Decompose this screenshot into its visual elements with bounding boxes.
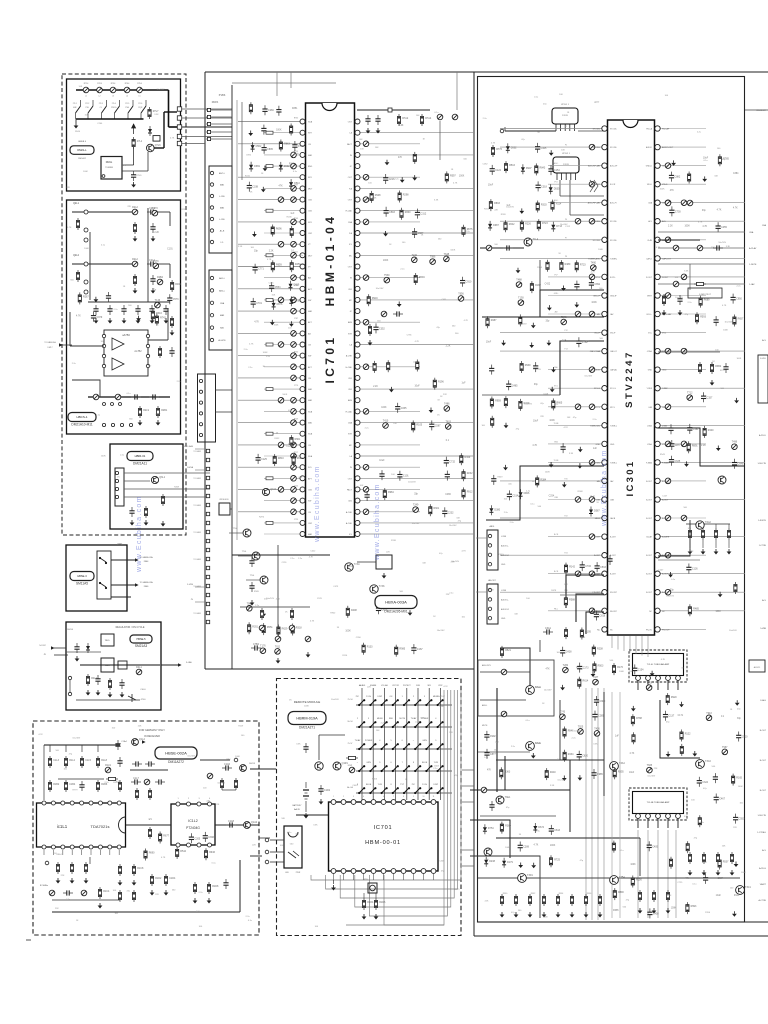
- IC301 pin 25: [602, 571, 607, 576]
- trimmer resistor RV: [275, 636, 281, 642]
- svg-text:4.7K: 4.7K: [532, 445, 537, 447]
- svg-text:www.Ecubiha.com: www.Ecubiha.com: [314, 465, 321, 543]
- svg-text:C979: C979: [97, 316, 103, 319]
- diode D238: [484, 857, 488, 867]
- IC701 pin 63: [355, 264, 360, 269]
- pin: [488, 598, 491, 601]
- resistor R: [491, 416, 494, 428]
- trimmer resistor RV: [291, 353, 297, 359]
- svg-text:R1D8: R1D8: [212, 885, 219, 888]
- ground: [716, 446, 721, 452]
- svg-text:DM6: DM6: [144, 586, 149, 588]
- svg-text:HBCS-1: HBCS-1: [76, 415, 87, 419]
- wire: [333, 880, 335, 884]
- junction: [363, 743, 365, 745]
- svg-text:R232: R232: [467, 472, 473, 475]
- svg-text:TUNE-C: TUNE-C: [610, 462, 618, 464]
- svg-text:5: 5: [373, 796, 374, 798]
- ground: [662, 310, 667, 316]
- transistor T7A4: [345, 563, 353, 571]
- junction: [392, 726, 394, 728]
- capacitor C514: [507, 490, 512, 500]
- resistor R170: [612, 663, 615, 675]
- junction: [358, 704, 360, 706]
- svg-text:HBXA-003A: HBXA-003A: [385, 599, 407, 604]
- ground: [578, 463, 583, 469]
- IC301 pin 12: [602, 330, 607, 335]
- svg-text:1uF: 1uF: [615, 736, 620, 738]
- pin: [208, 843, 212, 847]
- band switch Q7L3: [102, 106, 107, 113]
- pin: [176, 802, 180, 806]
- wire: [689, 540, 691, 548]
- key switch S47: [426, 766, 431, 771]
- pin: [89, 845, 93, 849]
- trimmer resistor RV: [589, 497, 595, 503]
- pin: [61, 801, 65, 805]
- svg-text:100K: 100K: [383, 260, 389, 262]
- band switch Q7L5: [128, 106, 133, 113]
- resistor R663: [279, 140, 282, 152]
- svg-text:AUDIO-L: AUDIO-L: [501, 544, 509, 547]
- key switch S22: [370, 722, 375, 727]
- junction: [419, 787, 421, 789]
- ground: [666, 752, 671, 758]
- wire IC301 left pin 3 net: [548, 165, 604, 167]
- svg-text:3.3K: 3.3K: [550, 785, 555, 787]
- pin: [108, 801, 112, 805]
- wire IC701 right pin 30 stub: [357, 444, 420, 446]
- pad: [207, 108, 210, 111]
- svg-text:R788: R788: [636, 717, 642, 720]
- wire stub: [206, 123, 232, 125]
- pin: [102, 175, 105, 178]
- resistor R: [504, 396, 507, 408]
- resistor R226: [520, 220, 523, 232]
- svg-text:Q3L1: Q3L1: [159, 476, 166, 479]
- resistor R723: [575, 260, 578, 272]
- svg-text:SW: SW: [308, 300, 311, 302]
- svg-text:SM21A3: SM21A3: [135, 644, 147, 648]
- svg-text:C1A8: C1A8: [228, 820, 235, 823]
- ground: [692, 751, 697, 757]
- svg-text:C473: C473: [333, 586, 339, 588]
- pin: [210, 289, 213, 292]
- svg-text:CBA: CBA: [220, 302, 225, 305]
- wire key matrix column 3: [383, 688, 385, 800]
- capacitor C: [131, 171, 136, 181]
- capacitor C818: [594, 611, 599, 621]
- wire IC701 pin 20 net: [238, 332, 303, 334]
- svg-text:R706: R706: [705, 912, 711, 914]
- wire mid: [58, 778, 104, 780]
- ground: [319, 799, 324, 805]
- svg-text:T673: T673: [153, 260, 159, 263]
- capacitor C: [714, 316, 719, 326]
- remote IC pin 3: [351, 800, 356, 805]
- antenna arrow: [133, 124, 135, 134]
- junction: [369, 770, 371, 772]
- svg-text:C396: C396: [208, 836, 214, 839]
- svg-text:10K: 10K: [561, 149, 565, 151]
- wire: [270, 861, 284, 863]
- key switch S32: [370, 744, 375, 749]
- svg-text:SDA: SDA: [308, 455, 313, 458]
- wire vcc right: [200, 759, 230, 761]
- svg-text:R267: R267: [83, 295, 89, 298]
- resistor R843: [535, 163, 538, 175]
- svg-text:TUNE: TUNE: [554, 460, 560, 462]
- transistor Q: [484, 848, 492, 856]
- capacitor C635: [669, 456, 674, 466]
- IC701 pin 48: [355, 431, 360, 436]
- svg-text:TO HBM: TO HBM: [193, 559, 201, 561]
- transistor T3D1: [518, 874, 527, 883]
- ground: [130, 520, 135, 526]
- IC301 pin 50: [655, 237, 660, 242]
- svg-text:P2: P2: [565, 145, 567, 147]
- svg-text:VERT: VERT: [647, 296, 653, 298]
- svg-text:C910: C910: [466, 281, 472, 284]
- IC301 pin 24: [602, 553, 607, 558]
- capacitor C877: [484, 749, 489, 759]
- junction: [358, 770, 360, 772]
- wire bold A2 b: [89, 232, 91, 300]
- transistor Q: [315, 762, 323, 770]
- IC701 pin 45: [355, 465, 360, 470]
- svg-text:CAF-CCAA: CAF-CCAA: [590, 350, 601, 353]
- ground: [263, 166, 268, 172]
- wire IC301 right pin 31 net: [658, 591, 745, 593]
- svg-text:100K: 100K: [630, 864, 636, 866]
- svg-text:B-CBT: B-CBT: [610, 574, 617, 576]
- wire: [658, 231, 745, 233]
- resistor R657: [733, 315, 736, 327]
- svg-text:D987: D987: [493, 224, 499, 227]
- svg-text:REMOTE MODULE: REMOTE MODULE: [294, 700, 321, 704]
- svg-text:BCL-B: BCL-B: [535, 687, 541, 689]
- capacitor C: [145, 761, 155, 766]
- capacitor C992: [484, 731, 489, 741]
- resistor R: [416, 360, 419, 372]
- diode D: [148, 126, 152, 136]
- trimmer resistor RV: [363, 141, 369, 147]
- svg-text:R450: R450: [295, 263, 301, 266]
- wire bold net d: [658, 428, 745, 466]
- resistor R: [662, 294, 665, 306]
- svg-text:C171: C171: [678, 715, 684, 717]
- svg-text:C770: C770: [294, 385, 298, 387]
- capacitor C742: [576, 337, 581, 347]
- capacitor C428: [560, 647, 565, 657]
- wire: [363, 874, 365, 880]
- ground: [397, 302, 402, 308]
- wire stub: [206, 116, 232, 118]
- capacitor C900: [594, 696, 599, 706]
- key switch S53: [382, 788, 387, 793]
- pin: [199, 412, 202, 415]
- svg-text:T490: T490: [591, 262, 597, 265]
- IC701 pin 11: [300, 231, 305, 236]
- svg-text:DM14: DM14: [67, 629, 74, 631]
- svg-text:R551: R551: [267, 626, 273, 629]
- svg-text:L-CBL: L-CBL: [219, 196, 226, 198]
- capacitor C405: [647, 841, 652, 851]
- resistor R985: [395, 645, 398, 657]
- svg-text:DM1A: DM1A: [187, 466, 193, 469]
- capacitor C891: [589, 279, 594, 289]
- IC701 pin 53: [355, 375, 360, 380]
- trimmer resistor T673: [152, 210, 158, 216]
- svg-text:22K: 22K: [206, 801, 210, 803]
- svg-text:TUNE-CBL: TUNE-CBL: [590, 425, 601, 427]
- svg-text:KP-CBL: KP-CBL: [610, 147, 617, 149]
- wire: [560, 124, 562, 131]
- svg-text:C1B4: C1B4: [69, 783, 76, 786]
- svg-text:AUDIO-L: AUDIO-L: [501, 598, 509, 601]
- wire IC701 pin 1 net: [238, 121, 303, 123]
- key switch S35: [404, 744, 409, 749]
- trimmer resistor RV: [665, 163, 671, 169]
- svg-text:R478: R478: [551, 590, 557, 592]
- svg-text:C260: C260: [97, 123, 103, 125]
- IC701 pin 57: [355, 331, 360, 336]
- trimmer resistor RV: [589, 181, 595, 187]
- remote IC pin 5: [371, 800, 376, 805]
- svg-text:D4L1: D4L1: [136, 666, 142, 669]
- resistor R: [118, 864, 121, 876]
- svg-text:C619: C619: [499, 554, 505, 556]
- trimmer resistor RV: [97, 87, 103, 93]
- resistor R1B6: [96, 780, 99, 792]
- svg-text:R315: R315: [484, 209, 490, 211]
- resistor R: [56, 862, 59, 874]
- svg-text:100K: 100K: [591, 302, 597, 304]
- wire: [482, 394, 560, 396]
- svg-text:T967: T967: [722, 746, 728, 749]
- IC701 pin 43: [355, 487, 360, 492]
- wire: [318, 735, 320, 760]
- ground: [702, 176, 707, 182]
- IC301 pin 40: [655, 423, 660, 428]
- pin: [187, 843, 191, 847]
- resistor R675: [462, 225, 465, 237]
- svg-text:22K: 22K: [446, 594, 450, 596]
- junction: [437, 748, 439, 750]
- resistor R1L2: [64, 756, 67, 768]
- svg-text:VID-D: VID-D: [662, 184, 668, 186]
- trimmer resistor RV: [278, 241, 284, 247]
- svg-text:R601: R601: [434, 507, 440, 510]
- capacitor C741: [292, 141, 297, 151]
- svg-text:IF-PLL: IF-PLL: [610, 277, 616, 279]
- IC301 pin 20: [602, 478, 607, 483]
- svg-text:HBSE-3: HBSE-3: [77, 574, 87, 578]
- svg-text:3.3K: 3.3K: [313, 824, 318, 826]
- svg-text:22K: 22K: [127, 206, 131, 208]
- junction: [397, 699, 399, 701]
- key switch S41: [359, 766, 364, 771]
- key switch S15: [404, 700, 409, 705]
- resistor R232: [462, 469, 465, 481]
- key switch S12: [370, 700, 375, 705]
- svg-text:I-CBB: I-CBB: [501, 536, 507, 538]
- svg-text:B-OUT: B-OUT: [646, 481, 653, 483]
- svg-text:R544: R544: [180, 850, 186, 853]
- trimmer resistor T486: [444, 406, 450, 412]
- wire IC701 pin 7 stub: [264, 187, 303, 189]
- junction: [437, 726, 439, 728]
- wire IC301 right pin 44 net: [658, 350, 745, 352]
- trimmer resistor RV: [137, 87, 143, 93]
- IC301 pin 45: [655, 330, 660, 335]
- svg-text:22K: 22K: [252, 845, 256, 847]
- svg-text:B-DAT: B-DAT: [646, 536, 652, 539]
- resistor R: [132, 890, 135, 902]
- svg-text:B-OUT: B-OUT: [662, 518, 669, 520]
- transistor T3A4: [610, 762, 619, 771]
- key switch S24: [393, 722, 398, 727]
- IC701 pin 60: [355, 297, 360, 302]
- wire: [238, 555, 252, 557]
- svg-text:10u/16V: 10u/16V: [519, 324, 527, 326]
- capacitor C: [74, 643, 79, 653]
- wire bold net c: [486, 466, 604, 520]
- ground: [701, 549, 706, 555]
- svg-text:T496: T496: [732, 441, 738, 444]
- svg-text:B-CBT: B-CBT: [594, 537, 601, 539]
- svg-text:R3B2: R3B2: [715, 365, 722, 368]
- trimmer resistor T656: [458, 296, 464, 302]
- wire: [343, 874, 345, 880]
- trimmer resistor T187: [593, 679, 599, 685]
- trimmer resistor RV: [665, 589, 671, 595]
- IC301 pin 23: [602, 534, 607, 539]
- svg-text:C3A1: C3A1: [545, 627, 552, 630]
- IC301 pin 31: [655, 590, 660, 595]
- pin: [210, 314, 213, 317]
- resistor R: [387, 360, 390, 372]
- wire IC701 pin 21 stub: [264, 344, 303, 346]
- remote IC pin 19: [361, 869, 366, 874]
- svg-text:C927: C927: [717, 878, 723, 880]
- wire: [637, 681, 639, 691]
- wire key matrix column 2: [372, 688, 374, 800]
- svg-text:D380: D380: [494, 508, 500, 511]
- inline resistor: [266, 432, 273, 435]
- ground: [108, 318, 113, 324]
- svg-text:YLW: YLW: [378, 784, 382, 786]
- resistor R440: [703, 426, 706, 438]
- svg-text:C157: C157: [707, 396, 713, 399]
- wire: [229, 532, 243, 534]
- key switch S43: [382, 766, 387, 771]
- wire IC701 right pin 38 net: [357, 533, 474, 535]
- wire: [480, 815, 556, 817]
- shielded connector TCL4B TUBULAR AMP: [629, 788, 687, 820]
- svg-text:www.Ecubiha.com: www.Ecubiha.com: [136, 495, 143, 573]
- diode D674: [533, 823, 537, 833]
- svg-text:C129: C129: [317, 598, 323, 600]
- svg-text:GND-: GND-: [554, 293, 559, 295]
- IC701 pin 28: [300, 420, 305, 425]
- svg-text:1uF: 1uF: [462, 383, 467, 385]
- junction: [386, 699, 388, 701]
- trimmer resistor RV: [291, 253, 297, 259]
- junction: [430, 699, 432, 701]
- capacitor C: [223, 879, 228, 889]
- svg-text:10u/16V: 10u/16V: [412, 523, 420, 525]
- svg-text:22K: 22K: [367, 686, 371, 688]
- svg-text:4.7K: 4.7K: [698, 222, 703, 224]
- remote IC pin 20: [351, 869, 356, 874]
- wire: [230, 508, 232, 510]
- inline resistor: [266, 209, 273, 212]
- IC301 pin 9: [602, 274, 607, 279]
- ground: [562, 482, 567, 488]
- svg-text:5-VBB: 5-VBB: [760, 628, 766, 630]
- ground: [735, 700, 740, 706]
- svg-text:D689: D689: [294, 284, 300, 287]
- resistor R: [290, 124, 293, 136]
- wire top power: [357, 109, 430, 111]
- svg-text:22K: 22K: [733, 827, 737, 829]
- svg-text:22K: 22K: [413, 362, 417, 364]
- svg-text:TUNE-CBL: TUNE-CBL: [590, 462, 601, 464]
- capacitor C173: [577, 663, 582, 673]
- dashed tuner block border: [62, 74, 186, 535]
- svg-text:AB1-L: AB1-L: [219, 277, 226, 280]
- svg-text:ERASE: ERASE: [370, 684, 377, 687]
- trimmer resistor RV: [665, 478, 671, 484]
- IC301 pin 30: [655, 608, 660, 613]
- wire key matrix row 2: [356, 726, 452, 728]
- transistor Q7L6: [147, 144, 155, 152]
- svg-text:A-PLLE: A-PLLE: [759, 867, 767, 870]
- svg-text:BCLL-: BCLL-: [647, 314, 653, 316]
- capacitor C593: [384, 207, 389, 217]
- ground: [382, 573, 387, 579]
- resistor R: [652, 890, 655, 902]
- wire right margin: [745, 109, 768, 111]
- IC701 pin 14: [300, 264, 305, 269]
- pin: [84, 210, 88, 214]
- ground: [164, 318, 169, 324]
- svg-text:D510: D510: [294, 182, 300, 185]
- ground: [94, 318, 99, 324]
- ground: [631, 706, 636, 712]
- pin: [102, 354, 105, 357]
- resistor R: [556, 894, 559, 906]
- svg-text:R779: R779: [73, 789, 79, 791]
- resistor R601: [429, 504, 432, 516]
- junction: [363, 787, 365, 789]
- capacitor C648: [732, 459, 737, 469]
- wire IC701 right pin 21 net: [357, 344, 474, 346]
- trimmer resistor T611: [275, 649, 281, 655]
- capacitor C567: [429, 420, 434, 430]
- ground: [501, 340, 506, 346]
- resistor R: [698, 362, 701, 374]
- transistor T7A6: [370, 585, 378, 593]
- trimmer resistor T530: [384, 277, 390, 283]
- svg-text:A.CHK: A.CHK: [346, 511, 353, 514]
- wire bottom long: [478, 877, 740, 879]
- pad: [207, 122, 210, 125]
- junction: [425, 792, 427, 794]
- svg-text:100K: 100K: [543, 916, 548, 918]
- ground: [574, 302, 579, 308]
